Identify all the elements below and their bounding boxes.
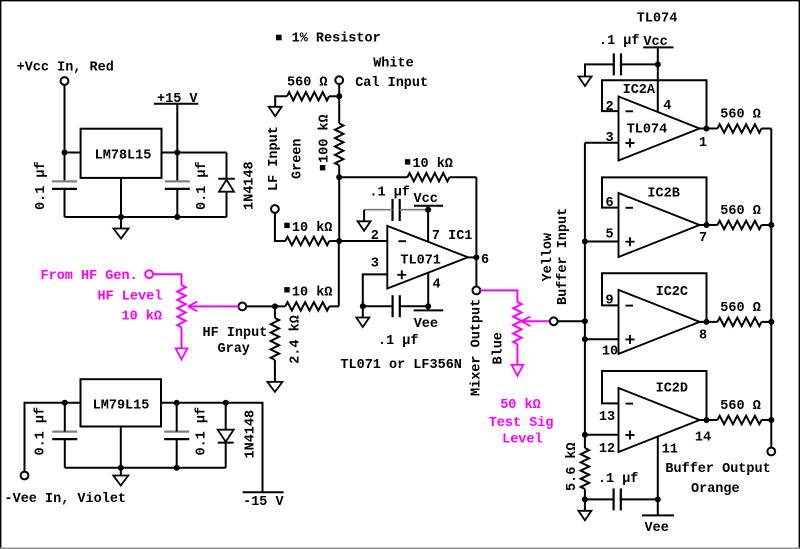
ground (78L15) — [120, 217, 122, 229]
wire cap to pin11 — [621, 498, 658, 500]
svg-text:HF Input: HF Input — [203, 326, 268, 341]
wire pin3 non-inverting to ground — [363, 274, 388, 317]
diode D2 1N4148 — [225, 403, 227, 430]
wire IC2A output — [700, 128, 718, 130]
diode D1 1N4148 — [226, 153, 228, 179]
arrow (pot low end) — [176, 348, 188, 359]
capacitor C 0.1 uF (input) — [52, 180, 77, 182]
svg-text:1% Resistor: 1% Resistor — [292, 31, 381, 46]
junction Vcc/bypass cap — [655, 61, 661, 67]
svg-text:10 kΩ: 10 kΩ — [292, 221, 333, 236]
wire 2.4k to ground — [274, 306, 276, 382]
node -Vee In terminal — [21, 472, 29, 480]
svg-text:7 IC1: 7 IC1 — [432, 229, 473, 244]
svg-text:4: 4 — [432, 278, 440, 293]
junction gnd rail/C2 — [174, 214, 180, 220]
wire node A to feedback R — [339, 176, 407, 178]
svg-text:12: 12 — [599, 442, 615, 457]
arrow (50k pot low end) — [512, 365, 524, 376]
svg-text:LM79L15: LM79L15 — [93, 399, 150, 414]
junction +Vcc/regulator input — [62, 150, 68, 156]
svg-text:0.1 µf: 0.1 µf — [34, 161, 49, 210]
junction rail/560 (IC2C) — [768, 319, 774, 325]
wire Vcc down to pin4 — [657, 47, 659, 112]
wire LF 10k to summing node — [329, 240, 387, 242]
wire IC2B feedback loop — [602, 177, 707, 225]
wire to LM78L15 input — [65, 152, 81, 154]
note 1% resistor — [276, 35, 282, 41]
wire IC2D non-inverting input — [585, 434, 619, 436]
svg-text:HF Level: HF Level — [98, 290, 163, 305]
svg-text:100 kΩ: 100 kΩ — [318, 114, 333, 163]
wire 79L15 output rail — [161, 403, 263, 493]
wire Vcc to pin7 — [427, 206, 429, 242]
wire regulator gnd pin — [120, 427, 122, 468]
resistor R 10k (HF, 1%) — [284, 287, 289, 292]
node Buffer Output terminal — [767, 448, 775, 456]
wire output vertical — [475, 177, 477, 287]
svg-text:10 kΩ: 10 kΩ — [122, 310, 163, 325]
svg-text:560 Ω: 560 Ω — [720, 108, 761, 123]
wire HF 10k up to summing node — [329, 241, 339, 306]
svg-text:50 kΩ: 50 kΩ — [500, 398, 541, 413]
junction bus/pin 10 — [582, 336, 588, 342]
wire IC2C output — [700, 321, 718, 323]
svg-text:IC2B: IC2B — [647, 187, 679, 202]
ground (79L15) — [120, 468, 122, 476]
svg-text:10 kΩ: 10 kΩ — [412, 157, 453, 172]
wire Vee cap right to pin4 — [400, 305, 428, 307]
node Buffer Input terminal — [550, 317, 558, 325]
op-amp U2A (IC2A) — [619, 97, 700, 161]
wire IC2B non-inverting input — [585, 241, 619, 243]
svg-text:Vee: Vee — [645, 521, 669, 536]
svg-text:-Vee In, Violet: -Vee In, Violet — [5, 492, 127, 507]
op-amp U2C (IC2C) — [619, 290, 700, 354]
ground (Vcc bypass) — [358, 221, 371, 231]
wire C3 top/bottom leads — [64, 403, 66, 432]
svg-text:-15 V: -15 V — [243, 495, 284, 510]
wire 560 to output rail (IC2C) — [762, 321, 772, 323]
svg-text:TL071: TL071 — [400, 253, 441, 268]
svg-text:TL074: TL074 — [627, 123, 668, 138]
svg-text:3: 3 — [371, 257, 379, 272]
wire IC2C non-inverting input — [585, 338, 619, 340]
wire 560 left to ground — [275, 96, 287, 107]
wire +Vcc In down to C1 — [64, 85, 66, 182]
power -15 V rail — [243, 491, 284, 493]
svg-text:2.4 kΩ: 2.4 kΩ — [288, 315, 303, 364]
wire LM78L15 output — [162, 152, 227, 154]
junction +15V/regulator output — [174, 150, 180, 156]
junction 5.6k/cap — [582, 496, 588, 502]
junction summing node pin2 — [336, 238, 342, 244]
wire apex to output node — [468, 256, 476, 258]
svg-text:Orange: Orange — [691, 482, 740, 497]
wire cap to 5.6k node — [585, 498, 614, 500]
ground (560) — [269, 107, 282, 117]
svg-text:IC2D: IC2D — [656, 382, 688, 397]
pot wiper arrow (50k) — [521, 320, 550, 322]
svg-text:IC2C: IC2C — [656, 285, 688, 300]
resistor R 10k feedback (1%) — [405, 159, 410, 164]
resistor R 2.4k — [271, 318, 279, 360]
wire 560 right lead — [329, 95, 339, 97]
junction bus/pin 5 — [582, 239, 588, 245]
junction node A (feedback) — [336, 174, 342, 180]
wire 560 to output rail (IC2A) — [762, 128, 772, 130]
junction IC2D output/feedback — [704, 417, 710, 423]
ground (2.4k) — [267, 382, 282, 392]
svg-text:Green: Green — [291, 138, 306, 179]
wire ground rail (78L15) — [65, 216, 227, 218]
potentiometer 50k Test Sig Level — [513, 302, 521, 344]
node LF Input terminal — [271, 205, 279, 213]
svg-text:8: 8 — [699, 329, 707, 344]
wire HF gen to pot — [153, 274, 182, 285]
wire +15V rail down — [176, 104, 178, 182]
junction rail/C4 — [174, 400, 180, 406]
svg-text:11: 11 — [662, 443, 678, 458]
junction gnd rail/reg — [118, 465, 124, 471]
junction IC2A output/feedback — [704, 126, 710, 132]
svg-text:.1 µf: .1 µf — [599, 34, 640, 49]
svg-text:IC2A: IC2A — [623, 83, 656, 98]
svg-text:Gray: Gray — [218, 342, 250, 357]
junction cal/560 — [336, 93, 342, 99]
wire pin 11 to Vee — [657, 436, 659, 516]
op-amp U1 TL071 (IC1) — [387, 226, 468, 289]
wire buffer output rail — [770, 129, 772, 448]
svg-text:Blue: Blue — [492, 332, 507, 364]
svg-text:0.1 µf: 0.1 µf — [195, 161, 210, 210]
svg-text:TL074: TL074 — [637, 11, 678, 26]
svg-text:+Vcc In, Red: +Vcc In, Red — [17, 61, 114, 76]
op-amp U2D (IC2D) — [619, 388, 700, 452]
wire 5.6k to ground — [584, 489, 586, 511]
junction gnd rail/C4 — [174, 465, 180, 471]
svg-text:Buffer Input: Buffer Input — [556, 208, 571, 305]
svg-text:Test Sig: Test Sig — [489, 416, 554, 431]
svg-text:Vcc: Vcc — [414, 192, 438, 207]
op-amp U2B (IC2B) — [619, 193, 700, 257]
junction output pin6 — [473, 254, 479, 260]
wire IC2C feedback loop — [602, 273, 707, 322]
wire mixer output to pot — [480, 290, 517, 302]
svg-text:1: 1 — [699, 136, 707, 151]
svg-text:.1 µf: .1 µf — [598, 472, 639, 487]
svg-text:13: 13 — [599, 410, 615, 425]
node +Vcc In terminal — [61, 77, 69, 85]
junction gnd rail/reg — [118, 214, 124, 220]
svg-text:Cal Input: Cal Input — [355, 76, 428, 91]
wire feedback R to output — [450, 176, 477, 178]
wire buffer input bus — [584, 143, 586, 448]
svg-text:560 Ω: 560 Ω — [720, 301, 761, 316]
wire IC2A feedback loop — [602, 80, 707, 128]
wire Cal Input down — [338, 84, 340, 123]
junction input/bus — [582, 318, 588, 324]
wire IC2B output — [700, 224, 718, 226]
svg-text:LM78L15: LM78L15 — [95, 148, 152, 163]
junction rail/560 (IC2D) — [768, 417, 774, 423]
svg-text:1N4148: 1N4148 — [244, 410, 259, 459]
wire IC2D feedback loop — [602, 371, 707, 420]
junction HF/2.4k — [272, 303, 278, 309]
svg-text:560 Ω: 560 Ω — [287, 76, 328, 91]
svg-text:7: 7 — [699, 231, 707, 246]
svg-text:Mixer Output: Mixer Output — [470, 299, 485, 396]
svg-text:White: White — [373, 56, 414, 71]
ground (pin3) — [356, 318, 369, 328]
junction pin3/cap — [360, 303, 366, 309]
resistor R 100k (1%) — [335, 123, 343, 165]
wire cap to ground — [364, 209, 392, 211]
junction IC2C output/feedback — [704, 319, 710, 325]
svg-text:.1 µf: .1 µf — [378, 334, 419, 349]
wire LF input to R — [275, 213, 285, 241]
junction rail/D2 — [223, 400, 229, 406]
svg-text:TL071 or LF356N: TL071 or LF356N — [340, 358, 462, 373]
power Vee (TL074) — [642, 514, 674, 516]
ground (TL074 Vcc bypass) — [579, 77, 592, 87]
svg-text:0.1 µf: 0.1 µf — [34, 407, 49, 456]
junction Vcc bypass — [425, 207, 431, 213]
junction rail/C3 — [62, 400, 68, 406]
ground (5.6k) — [578, 511, 591, 521]
node Mixer Output terminal — [473, 287, 481, 295]
regulator LM78L15 — [81, 129, 162, 178]
regulator LM79L15 — [81, 379, 162, 426]
svg-text:Level: Level — [502, 433, 543, 448]
svg-text:Vee: Vee — [414, 317, 438, 332]
resistor R 10k (LF, 1%) — [284, 223, 289, 228]
svg-text:.1 µf: .1 µf — [369, 186, 410, 201]
svg-text:560 Ω: 560 Ω — [720, 399, 761, 414]
junction pin11/cap — [655, 496, 661, 502]
junction rail/560 (IC2B) — [768, 222, 774, 228]
node HF Input terminal — [238, 303, 246, 311]
wire Vee cap left — [363, 305, 393, 307]
wire HF terminal to junction — [246, 305, 285, 307]
wire buffer input to bus — [557, 320, 585, 322]
power Vee (IC1) — [414, 309, 444, 311]
svg-text:4: 4 — [663, 99, 671, 114]
wire 100k bottom to node A — [338, 165, 340, 241]
svg-text:2: 2 — [605, 100, 613, 115]
capacitor C 0.1 uF (79L15 input) — [52, 431, 77, 433]
junction bus/pin 12 — [582, 432, 588, 438]
wire IC2D output — [700, 419, 718, 421]
wire pot bottom (50k) — [516, 344, 518, 365]
wire C1 bottom to ground rail — [64, 189, 66, 217]
wire IC2A non-inverting input — [585, 142, 619, 144]
svg-text:Yellow: Yellow — [541, 232, 556, 282]
wire pin4 down — [427, 273, 429, 311]
svg-text:From HF Gen.: From HF Gen. — [41, 269, 138, 284]
svg-text:5.6 kΩ: 5.6 kΩ — [565, 442, 580, 491]
svg-text:Buffer Output: Buffer Output — [665, 462, 770, 477]
junction pin4/Vee — [425, 303, 431, 309]
pot wiper arrow — [188, 305, 239, 307]
wire 560 to output rail (IC2D) — [762, 419, 772, 421]
svg-text:6: 6 — [481, 253, 489, 268]
wire 560 to output rail (IC2B) — [762, 224, 772, 226]
capacitor C 0.1 uF (output) — [165, 180, 190, 182]
junction IC2B output/feedback — [704, 222, 710, 228]
svg-text:14: 14 — [695, 431, 711, 446]
wire cap to Vcc node — [621, 63, 658, 65]
svg-text:10: 10 — [602, 344, 618, 359]
wire ground rail (79L15) — [65, 467, 226, 469]
svg-text:1N4148: 1N4148 — [243, 161, 258, 210]
capacitor C 0.1 uF (79L15 output) — [164, 431, 189, 433]
wire -Vee In up to rail — [25, 403, 81, 472]
wire C2 bottom to ground rail — [176, 189, 178, 217]
svg-text:LF Input: LF Input — [267, 126, 282, 191]
svg-text:10 kΩ: 10 kΩ — [292, 286, 333, 301]
svg-text:2: 2 — [371, 229, 379, 244]
svg-text:5: 5 — [605, 227, 613, 242]
wire pot bottom — [181, 327, 183, 348]
wire cap to Vcc/pin7 — [400, 209, 428, 211]
svg-text:560 Ω: 560 Ω — [720, 204, 761, 219]
wire regulator gnd pin — [120, 178, 122, 217]
wire cap to gnd — [585, 64, 614, 76]
svg-text:0.1 µf: 0.1 µf — [195, 407, 210, 456]
